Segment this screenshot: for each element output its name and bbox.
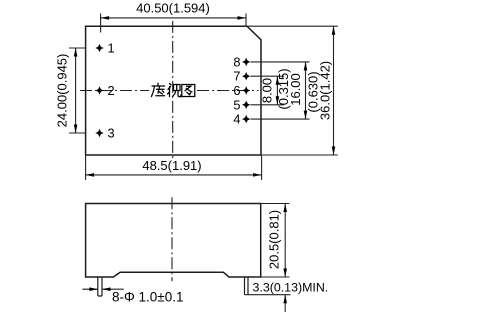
pin 3: [95, 126, 114, 141]
horizontal centerline (top view): [80, 90, 259, 92]
svg-text:6: 6: [233, 83, 240, 98]
pin 8: [233, 54, 250, 69]
dimension 16.00(0.630): [251, 62, 310, 119]
char 图: [182, 85, 195, 97]
char 视: [168, 84, 181, 97]
label 底视图 (hand-drawn CJK strokes): [152, 83, 195, 96]
svg-text:24.00(0.945): 24.00(0.945): [55, 54, 70, 128]
svg-text:3: 3: [108, 126, 115, 141]
dimension 24.00(0.945): [69, 48, 86, 133]
dimension 3.3(0.13)MIN.: [245, 295, 291, 312]
svg-text:7: 7: [233, 69, 240, 84]
svg-text:4: 4: [233, 112, 240, 127]
svg-text:5: 5: [233, 97, 240, 112]
pin 4: [233, 112, 250, 127]
vertical centerline (top view): [172, 21, 174, 159]
side view body outline: [86, 204, 261, 278]
pin 6: [233, 83, 250, 98]
svg-text:8.00: 8.00: [260, 78, 275, 103]
pin 1: [95, 41, 114, 56]
pin 7: [233, 69, 250, 84]
svg-text:8-Φ 1.0±0.1: 8-Φ 1.0±0.1: [112, 290, 183, 305]
svg-text:48.5(1.91): 48.5(1.91): [142, 158, 201, 173]
dimension 8-Φ1.0±0.1: [83, 287, 124, 291]
char 底: [152, 83, 165, 96]
top view body outline: [86, 26, 261, 155]
svg-text:2: 2: [108, 83, 115, 98]
svg-text:40.50(1.594): 40.50(1.594): [136, 1, 210, 16]
pin 5: [233, 97, 250, 112]
dimension 48.5(1.91): [86, 155, 262, 180]
dimension 40.50(1.594): [101, 14, 246, 33]
side view left pin: [98, 277, 102, 296]
side view right pin: [245, 277, 249, 295]
svg-text:20.5(0.81): 20.5(0.81): [267, 210, 282, 269]
svg-text:36.0(1.42): 36.0(1.42): [318, 61, 333, 120]
side view centerline: [171, 197, 173, 281]
pin 2: [95, 83, 114, 98]
dimension 36.0(1.42): [247, 26, 338, 155]
dimension 8.00(0.315): [251, 76, 285, 105]
svg-text:1: 1: [108, 41, 115, 56]
svg-text:8: 8: [233, 54, 240, 69]
svg-text:16.00: 16.00: [288, 73, 303, 106]
svg-text:3.3(0.13)MIN.: 3.3(0.13)MIN.: [253, 281, 329, 295]
dimension 20.5(0.81): [250, 204, 290, 278]
